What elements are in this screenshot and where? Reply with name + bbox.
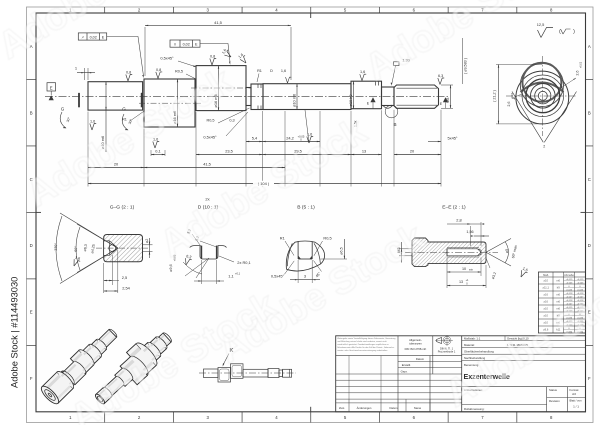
svg-text:1,56: 1,56: [466, 230, 473, 234]
detail circle B: [385, 105, 398, 118]
svg-text:( 21,2 ): ( 21,2 ): [493, 90, 497, 102]
svg-text:A: A: [588, 44, 591, 49]
fcf1 leader: [107, 37, 144, 77]
datum row: [336, 355, 462, 357]
groove D notch right: [375, 81, 377, 85]
svg-text:R0,5: R0,5: [175, 70, 183, 74]
svg-text:D: D: [270, 69, 273, 73]
K seg 1: [204, 369, 219, 378]
D fan arcs: [185, 258, 209, 276]
svg-text:Datum: Datum: [416, 357, 425, 361]
svg-text:41,5: 41,5: [214, 20, 223, 25]
svg-text:m6: m6: [556, 279, 560, 283]
dim row 3: [88, 167, 144, 169]
svg-text:F: F: [30, 376, 33, 381]
E-E section body: [412, 238, 486, 267]
svg-text:0,8: 0,8: [210, 54, 215, 58]
top dim 41,5: [144, 27, 146, 76]
svg-text:-0,043: -0,043: [566, 289, 573, 291]
svg-text:+0,01: +0,01: [580, 61, 583, 68]
svg-text:13: 13: [459, 280, 463, 284]
E-E centerline: [405, 251, 498, 253]
svg-text://: //: [174, 43, 176, 47]
svg-text:ausdrücklich gestattet. Zuwide: ausdrücklich gestattet. Zuwiderhandlunge…: [337, 343, 388, 346]
svg-text:D: D: [30, 243, 33, 248]
3D render shaft 1: [39, 324, 123, 407]
svg-text:Allgemein-: Allgemein-: [409, 338, 422, 342]
svg-text:⌀6,5: ⌀6,5: [340, 247, 344, 254]
svg-text:Material:: Material:: [464, 343, 475, 347]
svg-text:0,02: 0,02: [90, 35, 97, 39]
outer circle: [516, 71, 569, 124]
feature control frame parallel: [170, 40, 200, 47]
G-G dims bottom: [103, 263, 105, 293]
svg-text:E: E: [50, 85, 53, 90]
svg-text:Status: Status: [549, 388, 558, 392]
roughness below left: [90, 119, 96, 130]
svg-text:0,8: 0,8: [126, 70, 131, 74]
K inner fillet lines: [220, 369, 230, 381]
svg-text:0,3: 0,3: [229, 119, 234, 123]
svg-text:Schadenersatz. Alle Rechte für: Schadenersatz. Alle Rechte für den Fall …: [337, 346, 394, 349]
svg-text:2,8: 2,8: [456, 218, 461, 223]
svg-text:24,2: 24,2: [286, 135, 294, 140]
svg-text:und Mitteilung seines Inhalts: und Mitteilung seines Inhalts sind verbo…: [337, 340, 387, 343]
svg-text:Gepr.: Gepr.: [401, 369, 408, 373]
svg-text:0,5x45°: 0,5x45°: [160, 56, 174, 61]
svg-text:⌀11,1: ⌀11,1: [542, 286, 549, 290]
datum E left: [47, 83, 56, 91]
B groove floor: [298, 258, 312, 260]
rotation arc right: [122, 114, 128, 130]
svg-text:B (5 : 1): B (5 : 1): [297, 205, 315, 211]
dim dia 9,583: [462, 38, 464, 84]
B left chamfer band: [287, 243, 292, 266]
groove B arc: [383, 106, 393, 109]
svg-text:0,8: 0,8: [156, 68, 161, 72]
B bottom arc: [287, 264, 321, 271]
B groove walls: [297, 241, 299, 259]
roughness 1,6 seg7: [360, 70, 366, 81]
dim total 104: [88, 183, 441, 185]
dim row 2: [151, 154, 165, 156]
svg-text:+0,006: +0,006: [566, 282, 574, 284]
svg-text:Maß: Maß: [543, 273, 549, 277]
dim dia 10 m6 seg1: [105, 82, 107, 152]
thread leader 1,30: [394, 62, 400, 66]
datum arrow right: [443, 97, 448, 102]
svg-text:Name: Name: [414, 406, 422, 410]
svg-text:B: B: [588, 110, 591, 115]
svg-text:G: G: [122, 107, 126, 112]
svg-text:Änderungen: Änderungen: [357, 406, 372, 410]
allgemein toleranzen cell: [397, 336, 399, 356]
svg-text:D: D: [588, 243, 591, 248]
K groove: [279, 370, 283, 377]
K view centerline: [199, 372, 296, 374]
circle view crosshair: [541, 56, 543, 136]
svg-text:⌀16: ⌀16: [543, 293, 548, 297]
svg-text:23,5: 23,5: [225, 148, 233, 153]
svg-text:41,5: 41,5: [203, 161, 211, 166]
B dia 6,5: [320, 258, 347, 260]
rotation arc left: [60, 112, 66, 128]
svg-text:2x R0,1: 2x R0,1: [237, 260, 250, 265]
inner rings: [538, 91, 547, 100]
roughness 6,3 thread: [438, 74, 444, 85]
svg-text:m6: m6: [556, 300, 560, 304]
svg-text:Proj.methode 1: Proj.methode 1: [438, 349, 456, 353]
svg-text:Adobe Stock | #114493030: Adobe Stock | #114493030: [10, 277, 20, 388]
dim M8: [441, 84, 453, 86]
svg-text:1,6: 1,6: [90, 119, 95, 123]
E-E M3 dim: [399, 248, 412, 250]
svg-text:2,6: 2,6: [507, 102, 511, 107]
section G marks: [78, 93, 80, 107]
eccentric centerline lower: [139, 102, 201, 104]
shaft relief neck: [246, 88, 251, 106]
svg-text:C: C: [588, 177, 591, 182]
B dims bottom: [297, 260, 299, 283]
upper thin and thick circles: [520, 63, 563, 106]
shaft segment 3 eccentric big: [196, 66, 246, 111]
threaded end M8: [394, 85, 439, 108]
roughness symbols top: [126, 70, 132, 81]
thread runout groove: [382, 87, 395, 106]
projection method symbol: [437, 338, 442, 344]
E-E bottom dims: [446, 258, 448, 289]
svg-text:⌀16: ⌀16: [543, 300, 548, 304]
svg-text:0,1: 0,1: [155, 148, 160, 153]
thread core lines: [397, 87, 438, 89]
svg-text:G: G: [61, 107, 65, 112]
K seg 2: [218, 368, 231, 383]
svg-text:12,5: 12,5: [537, 22, 545, 27]
shaft segment 7: [351, 81, 382, 109]
title block outline: [336, 336, 586, 412]
svg-text:10: 10: [462, 267, 466, 271]
svg-text:B: B: [30, 110, 33, 115]
extension lines bottom: [87, 112, 89, 187]
dim dia 16 seg2: [177, 79, 179, 127]
shaft segment 6: [263, 84, 351, 110]
svg-text:5x45°: 5x45°: [448, 136, 458, 141]
G-G roughness: [72, 255, 82, 267]
B right chamfer band: [314, 243, 320, 264]
svg-text:muster- oder Geschmacksmustere: muster- oder Geschmacksmustereintragung …: [337, 349, 388, 352]
groove D notch left: [257, 84, 259, 88]
svg-text:+0,006: +0,006: [577, 282, 585, 284]
zone ticks and labels: [104, 7, 106, 13]
G-G angle fan: [60, 213, 118, 248]
K thread: [283, 369, 292, 377]
svg-text:E: E: [30, 310, 33, 315]
heavy arch: [521, 83, 564, 92]
K seg 4: [243, 369, 268, 377]
shaft segment 2 eccentric: [144, 79, 195, 127]
svg-text:E–E (2 : 1): E–E (2 : 1): [442, 205, 466, 211]
svg-text:min: min: [469, 268, 474, 272]
svg-text:120°: 120°: [54, 243, 58, 251]
title right rows: [462, 340, 586, 342]
svg-text:2,5: 2,5: [122, 275, 127, 280]
svg-text:6,3: 6,3: [438, 74, 443, 78]
svg-text:Zust.: Zust.: [339, 406, 345, 410]
G-G centerline: [96, 247, 148, 249]
shaft segment 1: [88, 82, 143, 110]
D groove profile: [190, 246, 227, 259]
E-E top dims: [470, 226, 472, 246]
svg-text:R0,5: R0,5: [206, 119, 214, 123]
dim dia 10 seg7: [353, 81, 355, 109]
svg-text:60°: 60°: [74, 246, 78, 252]
B groove detail dome outline: [286, 241, 324, 269]
svg-text:A3: A3: [572, 392, 576, 396]
title block verticals left part: [432, 336, 434, 374]
svg-text:+0,015: +0,015: [577, 279, 585, 281]
svg-text:1,1: 1,1: [228, 274, 233, 279]
svg-text:1,6: 1,6: [360, 70, 365, 74]
svg-text:0,02: 0,02: [183, 42, 190, 46]
svg-text:R1: R1: [257, 69, 262, 73]
svg-text:0,5x45°: 0,5x45°: [271, 274, 285, 279]
svg-text:⌀10 m6: ⌀10 m6: [292, 94, 297, 107]
svg-text:R0,5: R0,5: [323, 236, 331, 241]
svg-text:Datum: Datum: [390, 406, 399, 410]
svg-text:1,6: 1,6: [281, 69, 286, 73]
svg-text:2,6: 2,6: [576, 71, 580, 76]
fcf2 leader: [200, 44, 230, 63]
G-G center hole cone: [104, 241, 118, 255]
watermark ghost rings: [158, 100, 178, 120]
K seg 5: [268, 369, 279, 378]
E-E bore: [447, 249, 481, 256]
tolerance table: [538, 272, 585, 333]
E-E cone fan: [486, 239, 511, 267]
svg-text:Blatt / von: Blatt / von: [570, 398, 582, 402]
svg-text:↗: ↗: [81, 36, 84, 40]
G-G dia 2 dim: [143, 244, 153, 246]
svg-text:( ⌀9,583 ): ( ⌀9,583 ): [464, 58, 468, 74]
svg-text:+0,1: +0,1: [235, 272, 241, 276]
svg-text:DIN ISO 2768-mK: DIN ISO 2768-mK: [405, 347, 427, 351]
svg-text:⌀10: ⌀10: [543, 307, 548, 311]
svg-text:Revision: Revision: [549, 399, 560, 403]
svg-text:⌀10: ⌀10: [543, 279, 548, 283]
svg-text:m6: m6: [556, 293, 560, 297]
svg-text:5,4: 5,4: [252, 135, 258, 140]
circle view dim 21,2: [496, 64, 542, 66]
svg-text:⌀10 h9: ⌀10 h9: [348, 94, 353, 106]
svg-text:-0,043: -0,043: [577, 289, 584, 291]
D dim 1,1: [201, 260, 203, 284]
datum arrow mid: [370, 97, 375, 102]
revision table verticals: [348, 399, 350, 412]
svg-text:toleranzen: toleranzen: [409, 342, 422, 346]
svg-text:Weitergabe sowie Vervielfältig: Weitergabe sowie Vervielfältigung dieses…: [337, 337, 395, 340]
svg-text:G–G (2 : 1): G–G (2 : 1): [110, 205, 135, 211]
svg-text:0,5x45°: 0,5x45°: [203, 135, 217, 140]
svg-text:⌀5: ⌀5: [505, 249, 509, 253]
svg-text:2: 2: [543, 145, 545, 149]
svg-text:Abmaße: Abmaße: [564, 273, 574, 277]
shaft segment 5: [251, 84, 263, 110]
3D render shaft 2: [87, 324, 179, 412]
svg-text:⌀9,6: ⌀9,6: [169, 264, 173, 271]
svg-text:+0,015: +0,015: [566, 279, 574, 281]
dim row chamfers 5,4 24,2: [246, 141, 263, 143]
svg-text:⌀2: ⌀2: [145, 239, 149, 243]
svg-text:2,54: 2,54: [122, 286, 130, 291]
svg-text:1 / 1: 1 / 1: [573, 404, 579, 408]
svg-text:Maßstab: 1:1: Maßstab: 1:1: [464, 337, 481, 341]
svg-text:Erstellt: Erstellt: [402, 363, 411, 367]
eccentric centerline upper: [191, 87, 251, 89]
dim dia 16 seg3: [218, 66, 220, 111]
svg-text:F: F: [588, 376, 591, 381]
main centerline: [45, 95, 450, 97]
V cone lines: [512, 92, 577, 143]
dim dia 10 seg6: [296, 84, 298, 110]
svg-text:+0,018: +0,018: [566, 293, 574, 295]
K seg 3: [231, 364, 244, 379]
svg-text:R1: R1: [280, 236, 285, 241]
svg-text:): ): [573, 29, 575, 35]
revision table rows: [336, 379, 462, 381]
feature control frame runout: [78, 33, 106, 40]
